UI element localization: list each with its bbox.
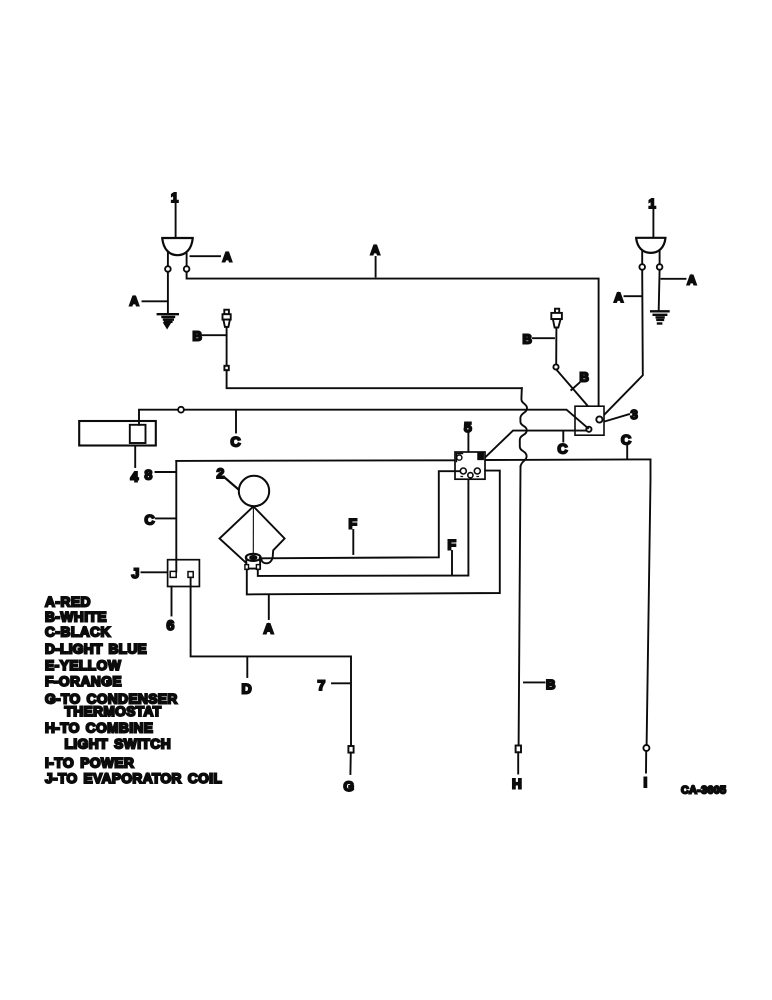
wire C (bus from node 8 to switch 5) [176, 459, 455, 462]
wire F (coil to switch 5 center) [258, 479, 469, 576]
label A (left ground wire) [130, 294, 168, 309]
svg-text:1: 1 [649, 196, 656, 211]
label 7 [318, 677, 351, 693]
label B (right plug) [523, 332, 555, 347]
terminal (right horn feed side) [639, 264, 645, 270]
wire C (switch 5 to junction 3) [485, 431, 587, 458]
label D [242, 658, 252, 697]
label A (horn feed bus) [371, 243, 381, 277]
svg-text:6: 6 [167, 617, 175, 633]
wire C (power corner to I) [647, 459, 651, 745]
label F (first) [349, 516, 358, 555]
svg-text:3: 3 [631, 407, 638, 422]
svg-text:C: C [558, 441, 568, 457]
label 2 [217, 465, 239, 490]
ground (left horn) [158, 314, 178, 327]
svg-text:LIGHT SWITCH: LIGHT SWITCH [65, 737, 172, 752]
wire stub H [517, 752, 519, 773]
label A (compressor wire) [264, 596, 274, 637]
svg-text:A: A [371, 243, 381, 258]
svg-text:E-YELLOW: E-YELLOW [45, 658, 121, 673]
horn 1 right [636, 238, 665, 264]
wire B (left plug to loom) [227, 370, 522, 388]
compressor drive belt (diamond) [220, 507, 285, 564]
label A (right horn feed) [614, 290, 642, 305]
svg-text:A-RED: A-RED [45, 594, 91, 609]
svg-text:CA-3605: CA-3605 [681, 785, 726, 797]
connector (relay wire C) [178, 407, 184, 413]
svg-text:C: C [231, 434, 241, 450]
svg-text:F-ORANGE: F-ORANGE [45, 674, 122, 689]
clutch coil (cylinder) [245, 554, 261, 570]
junction block 3 [575, 406, 604, 435]
svg-text:C: C [621, 432, 631, 448]
terminal (left horn ground side) [165, 266, 171, 272]
label C (power wire) [621, 432, 631, 459]
wire A (right horn to ground) [658, 270, 661, 310]
svg-text:D: D [242, 681, 252, 697]
label F (second) [448, 537, 457, 575]
svg-text:A: A [223, 250, 233, 265]
label 4 [131, 446, 139, 485]
svg-text:H: H [512, 777, 522, 792]
svg-text:1: 1 [171, 190, 178, 205]
wire A tick (left horn body) [191, 255, 221, 257]
wire A (right horn feed to junction 3) [602, 270, 643, 418]
label 3 [605, 407, 638, 422]
label B (right plug wire) [571, 370, 589, 391]
label 1 (right horn) [649, 196, 656, 237]
label J [132, 565, 168, 581]
horn 1 left [162, 238, 192, 266]
svg-text:A: A [687, 273, 697, 288]
label 5 [464, 419, 472, 452]
terminal (right horn ground side) [657, 264, 663, 270]
svg-text:I-TO POWER: I-TO POWER [45, 756, 134, 771]
svg-text:B-WHITE: B-WHITE [45, 609, 107, 624]
wire loom (harness squiggle) [520, 388, 527, 466]
wire A horn feed bus (left horn to junction 3) [187, 272, 599, 417]
wire B (loom to combine light switch H) [519, 467, 521, 746]
wire stub I [645, 752, 647, 773]
svg-text:C: C [145, 511, 155, 527]
label C (junction 3 lower wire) [558, 432, 568, 457]
svg-text:A: A [264, 621, 274, 637]
svg-text:8: 8 [145, 467, 153, 483]
label A (right ground wire) [662, 273, 698, 288]
label 8 [145, 467, 176, 483]
connector (right B wire) [553, 364, 558, 369]
svg-text:B: B [546, 677, 555, 692]
label B (combine light wire) [524, 677, 555, 692]
spark plug B right [551, 309, 562, 365]
svg-text:A: A [130, 294, 140, 309]
wire A (coil to switch 5 right) [247, 471, 500, 595]
svg-text:D-LIGHT BLUE: D-LIGHT BLUE [45, 642, 147, 657]
svg-text:H-TO COMBINE: H-TO COMBINE [45, 721, 153, 736]
svg-text:J-TO EVAPORATOR COIL: J-TO EVAPORATOR COIL [45, 771, 222, 786]
switch 5 [455, 452, 485, 479]
svg-text:A: A [614, 290, 624, 305]
terminal (left horn feed side) [184, 266, 190, 272]
label C (relay wire) [231, 411, 241, 450]
svg-text:2: 2 [217, 465, 225, 481]
wire C (relay to junction 3) [139, 410, 588, 429]
wire B (right plug to junction 3) [556, 370, 598, 418]
svg-text:B: B [523, 332, 532, 347]
svg-text:B: B [193, 328, 202, 343]
svg-text:G: G [344, 779, 355, 794]
connector I [643, 745, 649, 751]
wire F (clutch to switch 5 left) [260, 471, 460, 558]
wire D (connector J to condenser thermostat G) [191, 577, 351, 745]
label B (left plug) [193, 328, 227, 343]
svg-text:4: 4 [131, 469, 139, 485]
svg-text:7: 7 [318, 677, 326, 693]
svg-text:THERMOSTAT: THERMOSTAT [65, 704, 162, 719]
wire C (switch 5 to power corner) [485, 458, 651, 461]
compressor clutch 2 (circle) [239, 476, 269, 506]
connector G [348, 746, 353, 753]
wire stub 6 [171, 587, 173, 616]
wire C (node 8 vertical to connector J) [175, 461, 177, 560]
svg-text:C-BLACK: C-BLACK [45, 624, 111, 639]
connector H [516, 746, 521, 753]
label C (left vertical wire) [145, 511, 176, 527]
connector (left B wire) [224, 366, 228, 370]
evaporator connector J [168, 560, 200, 587]
spark plug B left [223, 310, 231, 366]
svg-text:I: I [644, 775, 648, 790]
svg-text:J: J [132, 565, 140, 581]
svg-text:B: B [580, 370, 589, 385]
relay 4 [79, 421, 156, 446]
wire A (left horn to ground) [167, 272, 169, 314]
ground (right horn) [651, 311, 668, 323]
wire stub G [349, 753, 351, 774]
label 1 (left horn) [171, 190, 178, 237]
